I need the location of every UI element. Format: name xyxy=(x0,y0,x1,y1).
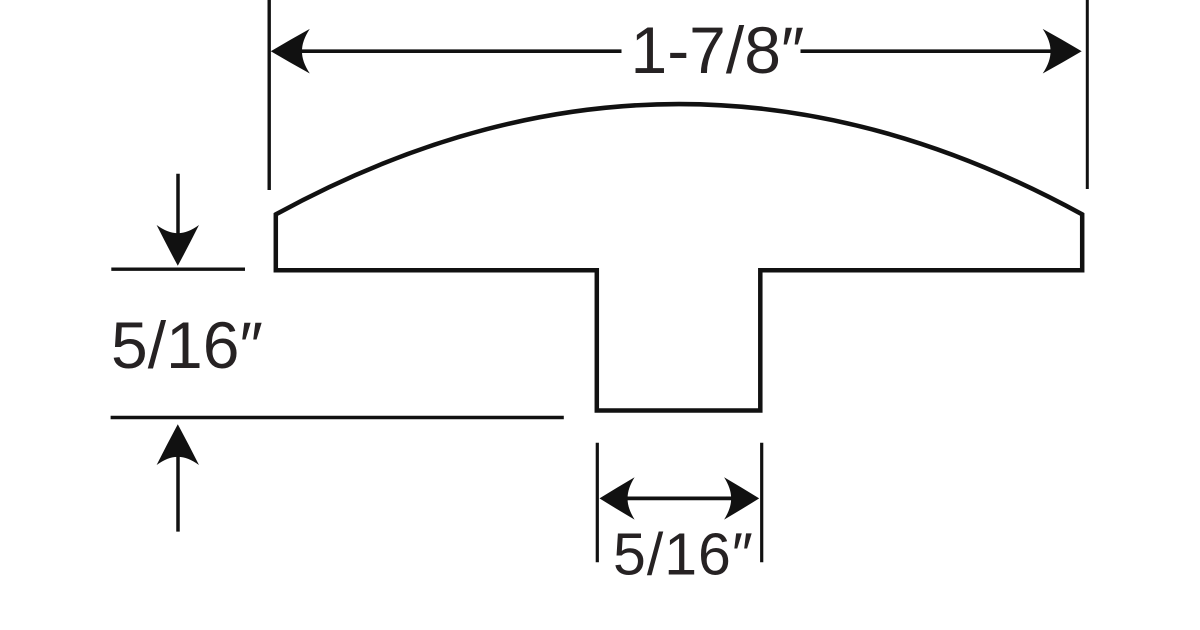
svg-text:5/16″: 5/16″ xyxy=(613,522,754,588)
svg-text:5/16″: 5/16″ xyxy=(111,308,263,382)
svg-text:1-7/8″: 1-7/8″ xyxy=(631,13,805,87)
